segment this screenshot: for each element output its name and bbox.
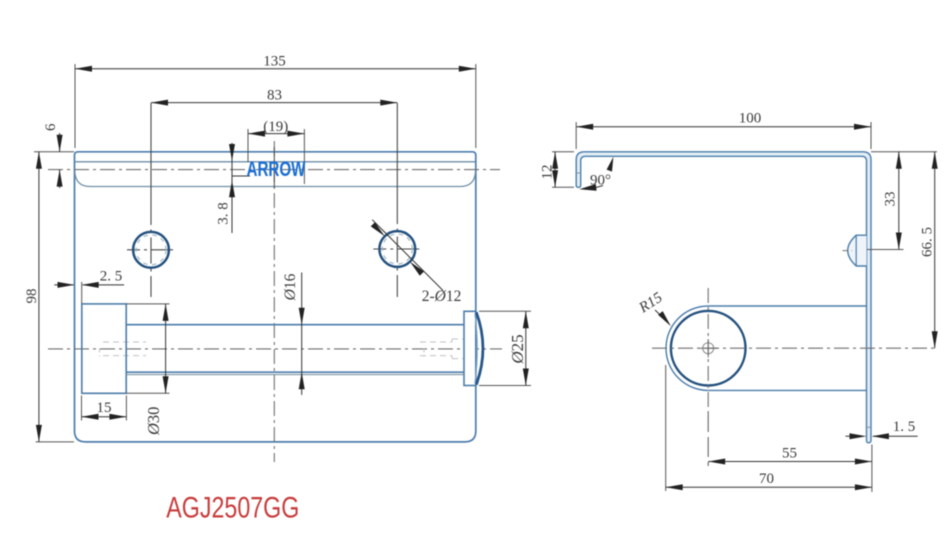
RIGHT VIEW DIMENSIONS [540, 111, 938, 493]
dimension R15 leader [636, 289, 671, 326]
svg-text:12: 12 [540, 165, 556, 180]
svg-text:66. 5: 66. 5 [920, 227, 936, 257]
svg-text:2. 5: 2. 5 [100, 269, 123, 285]
dimension (19) [248, 119, 304, 184]
plate vertical centerline [273, 141, 275, 462]
hole left thread dashed [136, 235, 166, 265]
dimension 12 [540, 152, 574, 188]
svg-text:2-Ø12: 2-Ø12 [422, 288, 462, 305]
dimension 3.8 [216, 143, 250, 233]
LEFT VIEW DIMENSIONS [24, 54, 531, 525]
dimension 15 [82, 396, 127, 421]
svg-text:6: 6 [43, 123, 59, 131]
holder tangent top [708, 305, 866, 307]
hole right [379, 231, 415, 267]
dimension d25 [479, 311, 531, 385]
svg-text:ARROW: ARROW [247, 157, 306, 181]
hole right crosshair [396, 103, 398, 297]
dimension 66.5 [920, 152, 938, 348]
center mark [703, 343, 714, 354]
LEFT VIEW GROUP [48, 103, 502, 462]
svg-text:(19): (19) [263, 119, 288, 135]
flange inner line [75, 161, 475, 163]
dimension 2-d12 leader [371, 220, 462, 305]
roller cap lens inner [475, 314, 477, 384]
flange centerline [48, 169, 500, 171]
dimension 55 [708, 412, 872, 492]
dimension 33 [867, 152, 937, 250]
svg-text:90°: 90° [590, 173, 611, 189]
svg-text:135: 135 [263, 54, 286, 70]
roller tube bottom shadow [126, 374, 464, 376]
dimension 98 [24, 152, 74, 442]
svg-text:Ø16: Ø16 [282, 273, 299, 301]
svg-text:1. 5: 1. 5 [893, 419, 916, 435]
clip centerline [843, 250, 853, 252]
dimension 6 [34, 123, 74, 188]
dimension 135 [75, 54, 476, 149]
dimension 100 [576, 111, 871, 150]
dimension 1.5 [846, 419, 918, 439]
circle v centerline [707, 288, 709, 412]
svg-text:15: 15 [97, 400, 112, 416]
bend tick right leg [867, 426, 872, 428]
roller centerline [48, 348, 502, 350]
dimension 70 [666, 365, 872, 491]
svg-text:AGJ2507GG: AGJ2507GG [166, 491, 299, 524]
dimension 90 deg [579, 157, 613, 191]
roller pin clip [848, 235, 867, 266]
rolled lip outer arc R15 [666, 306, 708, 390]
dimension 83 [151, 88, 397, 106]
dimension d30 [126, 304, 169, 436]
svg-text:Ø25: Ø25 [508, 334, 527, 364]
hole right thread dashed [382, 234, 412, 264]
dimension 2.5 [54, 269, 124, 304]
hole left [133, 232, 169, 268]
roller end cap [464, 311, 476, 385]
svg-text:83: 83 [267, 88, 282, 104]
roller left block [82, 304, 126, 393]
roller cap lens [476, 312, 483, 384]
svg-text:55: 55 [782, 446, 797, 462]
svg-text:100: 100 [739, 111, 762, 127]
svg-text:33: 33 [883, 192, 899, 207]
sheet profile [576, 152, 871, 443]
hole left crosshair [150, 103, 152, 297]
holder tangent bottom [708, 389, 866, 391]
svg-text:70: 70 [759, 471, 774, 487]
roller tube top [126, 324, 464, 326]
svg-text:Ø30: Ø30 [144, 407, 163, 436]
bend tick left leg [576, 172, 581, 174]
flange bottom edge [75, 172, 476, 187]
svg-text:98: 98 [24, 289, 40, 304]
plate outline [75, 152, 476, 442]
RIGHT VIEW GROUP [576, 152, 938, 443]
roller tube bottom [126, 371, 464, 373]
dimension d16 [282, 273, 305, 395]
end cap circle [671, 311, 746, 386]
circle h centerline [652, 347, 938, 349]
roller hidden slot right [420, 339, 468, 359]
roller hidden slot left [100, 342, 147, 357]
svg-text:3. 8: 3. 8 [216, 202, 232, 225]
